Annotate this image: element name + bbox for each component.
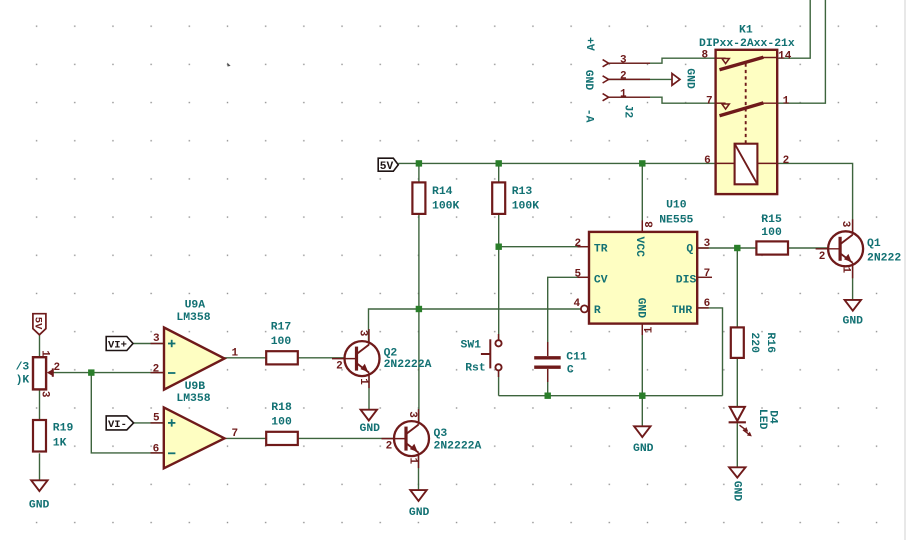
svg-text:100: 100 [271, 336, 292, 348]
junction at 91.3,372.6 [88, 369, 94, 375]
svg-text:GND: GND [409, 507, 430, 519]
global label 5V (top rail) [378, 158, 398, 173]
junction at 642.3,163.4 [639, 160, 645, 166]
svg-text:R19: R19 [53, 423, 74, 435]
wire R18 to Q3 base [298, 437, 394, 439]
svg-text:5: 5 [153, 413, 160, 425]
svg-text:U10: U10 [666, 199, 687, 211]
transistor Q1 2N2222A [816, 219, 902, 278]
svg-text:A+: A+ [587, 37, 599, 51]
svg-text:GND: GND [633, 443, 654, 455]
wire J2 pin3 to relay pin8 [609, 58, 716, 63]
svg-text:4: 4 [574, 298, 581, 310]
svg-text:R: R [594, 305, 601, 317]
cursor mark [227, 63, 230, 67]
svg-text:GND: GND [684, 68, 696, 89]
svg-text:7: 7 [232, 428, 239, 440]
svg-text:LM358: LM358 [176, 312, 210, 324]
svg-text:Q: Q [686, 244, 693, 256]
wire pot wiper node [53, 372, 91, 374]
wire J2 pin2 to GND arrow [609, 78, 672, 80]
power flag 5V (left) [32, 314, 46, 335]
wire C11 bottom [547, 369, 549, 396]
svg-text:SW1: SW1 [461, 340, 482, 352]
svg-text:1: 1 [643, 326, 655, 333]
svg-text:2: 2 [54, 362, 61, 374]
svg-text:2: 2 [620, 71, 627, 83]
wire Q2 emitter to GND [368, 376, 370, 410]
wire node to U9A inverting [91, 372, 164, 374]
wire LED to GND [736, 422, 738, 467]
svg-text:2: 2 [819, 251, 826, 263]
svg-text:3: 3 [153, 333, 160, 345]
ground under Q1 [843, 300, 864, 328]
wire CV to C11 [548, 277, 589, 356]
svg-text:-A: -A [582, 109, 594, 123]
svg-text:5V: 5V [380, 161, 394, 173]
pushbutton SW1 Rst [461, 334, 502, 377]
timer U10 NE555 [574, 199, 713, 335]
resistor R15 100 [756, 214, 788, 255]
svg-text:VI+: VI+ [108, 340, 127, 352]
resistor R18 100 [266, 402, 298, 445]
svg-text:R13: R13 [512, 186, 533, 198]
wire U9A out to R17 [224, 357, 266, 359]
svg-text:8: 8 [702, 50, 709, 62]
svg-text:3: 3 [704, 238, 711, 250]
junction at 737.3,248 [734, 245, 740, 251]
svg-text:7: 7 [704, 268, 711, 280]
junction at 547.7,395.7 [545, 393, 551, 399]
ground under D4 [729, 467, 745, 501]
junction at 498.7,246.7 [496, 244, 502, 250]
svg-text:2: 2 [386, 441, 393, 453]
ground under Q2 [360, 410, 381, 436]
wire relay pin1 to top edge [777, 0, 825, 103]
svg-text:2N222: 2N222 [867, 253, 901, 265]
svg-text:THR: THR [672, 305, 693, 317]
svg-text:C11: C11 [566, 352, 587, 364]
resistor R16 220 [731, 327, 776, 358]
svg-text:C: C [567, 365, 574, 377]
ground under 555 [633, 426, 654, 455]
relay K1 DIPxx-2Axx-21x [699, 25, 795, 195]
wire relay pin2 to Q1 collector [777, 163, 852, 231]
svg-text:R16: R16 [764, 332, 776, 353]
ground under Q3 [409, 490, 430, 519]
wire Q output to R15 [697, 247, 756, 249]
svg-text:3: 3 [406, 411, 418, 418]
junction at 498.7,163.4 [496, 160, 502, 166]
wire VI- to U9B [134, 422, 164, 424]
global label VI+ [106, 337, 133, 352]
wire Q3 emitter to GND [418, 456, 420, 490]
svg-text:1: 1 [38, 350, 50, 357]
svg-text:R15: R15 [761, 214, 782, 226]
wire R17 to Q2 base [298, 357, 345, 359]
svg-text:GND: GND [29, 500, 50, 512]
svg-text:GND: GND [582, 70, 594, 91]
svg-text:1: 1 [783, 96, 790, 108]
svg-text:3: 3 [39, 391, 51, 398]
svg-text:NE555: NE555 [659, 215, 693, 227]
junction at 642.3,395.7 [639, 393, 645, 399]
wire R13 bottom to SW1 [498, 214, 500, 340]
svg-text:J2: J2 [621, 105, 633, 119]
svg-text:K1: K1 [739, 25, 753, 37]
svg-text:GND: GND [843, 316, 864, 328]
svg-text:1: 1 [357, 378, 369, 385]
svg-text:U9A: U9A [185, 300, 206, 312]
wire J2 pin1 to relay pin7 [609, 97, 716, 103]
wire VI+ to U9A [133, 343, 164, 345]
svg-text:5: 5 [575, 269, 582, 281]
op-amp U9B LM358 [151, 381, 239, 468]
svg-text:2: 2 [575, 238, 582, 250]
global label VI- [106, 416, 133, 431]
svg-text:6: 6 [704, 155, 711, 167]
wire Q1 emitter to GND [852, 267, 854, 300]
power GND arrow at J2 [672, 68, 696, 89]
transistor Q2 2N2222A [332, 329, 432, 388]
wire R13 top [498, 163, 500, 182]
op-amp U9A LM358 [151, 300, 239, 390]
svg-text:GND: GND [730, 481, 742, 502]
svg-text:8: 8 [644, 221, 656, 228]
wire R15 to Q1 base [788, 247, 828, 249]
junction at 418.9,163.4 [416, 160, 422, 166]
panel edge [904, 0, 906, 540]
svg-text:100K: 100K [432, 200, 460, 212]
wire R14 bottom to Q3 collector [418, 214, 420, 422]
capacitor C11 [534, 342, 587, 382]
svg-text:Q2: Q2 [384, 348, 398, 360]
wire R16 riser [736, 248, 738, 327]
resistor R17 100 [266, 322, 298, 365]
svg-text:1: 1 [620, 88, 627, 100]
svg-text:Q3: Q3 [434, 428, 448, 440]
wire TR net [499, 246, 589, 248]
transistor Q3 2N2222A [382, 409, 482, 468]
svg-text:VI-: VI- [108, 419, 127, 431]
wire U9B out to R18 [224, 437, 266, 439]
svg-text:3: 3 [356, 330, 368, 337]
svg-text:7: 7 [706, 96, 713, 108]
svg-text:R18: R18 [271, 402, 292, 414]
svg-text:6: 6 [704, 298, 711, 310]
svg-text:1: 1 [840, 267, 852, 274]
wire node to U9B inverting [91, 373, 164, 453]
svg-text:2: 2 [783, 155, 790, 167]
svg-text:100K: 100K [512, 200, 540, 212]
wire SW1 bottom [498, 370, 500, 395]
wire 555 GND pin down [641, 324, 643, 427]
svg-text:Q1: Q1 [867, 238, 881, 250]
svg-text:2N2222A: 2N2222A [434, 440, 482, 452]
svg-text:R17: R17 [271, 322, 292, 334]
resistor R14 100K [412, 182, 459, 214]
svg-text:GND: GND [360, 423, 381, 435]
svg-text:DIPxx-2Axx-21x: DIPxx-2Axx-21x [699, 38, 795, 50]
wire THR riser [697, 308, 722, 396]
svg-text:5V: 5V [32, 317, 44, 330]
potentiometer RV3 [16, 350, 61, 398]
wire R14 top [418, 163, 420, 182]
svg-text:3: 3 [620, 54, 627, 66]
svg-text:CV: CV [594, 274, 608, 286]
wire R16 to LED [736, 358, 738, 407]
svg-text:U9B: U9B [185, 381, 206, 393]
svg-text:6: 6 [153, 443, 160, 455]
svg-text:2N2222A: 2N2222A [384, 359, 432, 371]
svg-text:/3: /3 [16, 362, 30, 374]
wire bottom rail [499, 395, 723, 397]
wire relay pin14 to top edge [777, 0, 810, 58]
LED D4 [729, 407, 779, 437]
svg-text:100: 100 [271, 417, 292, 429]
resistor R13 100K [492, 182, 539, 214]
wire pot to R19 [39, 389, 41, 420]
svg-text:LM358: LM358 [176, 393, 210, 405]
svg-text:R14: R14 [432, 186, 453, 198]
svg-text:100: 100 [761, 227, 782, 239]
svg-text:220: 220 [748, 332, 760, 353]
wire R19 to GND [39, 453, 41, 480]
svg-text:1: 1 [406, 458, 418, 465]
svg-text:)K: )K [16, 374, 30, 386]
svg-text:14: 14 [778, 50, 792, 62]
resistor R19 1K [33, 420, 73, 452]
svg-text:TR: TR [594, 244, 608, 256]
wire Q2 collector to 555 R pin [369, 309, 581, 342]
svg-text:Rst: Rst [465, 363, 486, 375]
svg-text:1: 1 [232, 347, 239, 359]
svg-text:VCC: VCC [633, 237, 645, 258]
svg-text:1K: 1K [53, 438, 67, 450]
junction at 418.9,309 [416, 306, 422, 312]
svg-text:2: 2 [153, 363, 160, 375]
connector J2 [603, 54, 650, 118]
ground under R19 [29, 480, 50, 511]
wire VCC riser [641, 163, 643, 232]
svg-text:LED: LED [756, 409, 768, 430]
svg-text:GND: GND [634, 298, 646, 319]
wire 5V rail [398, 162, 715, 164]
svg-text:2: 2 [336, 361, 343, 373]
svg-text:DIS: DIS [676, 274, 697, 286]
svg-text:3: 3 [839, 221, 851, 228]
wire 5V flag to pot [39, 335, 41, 357]
